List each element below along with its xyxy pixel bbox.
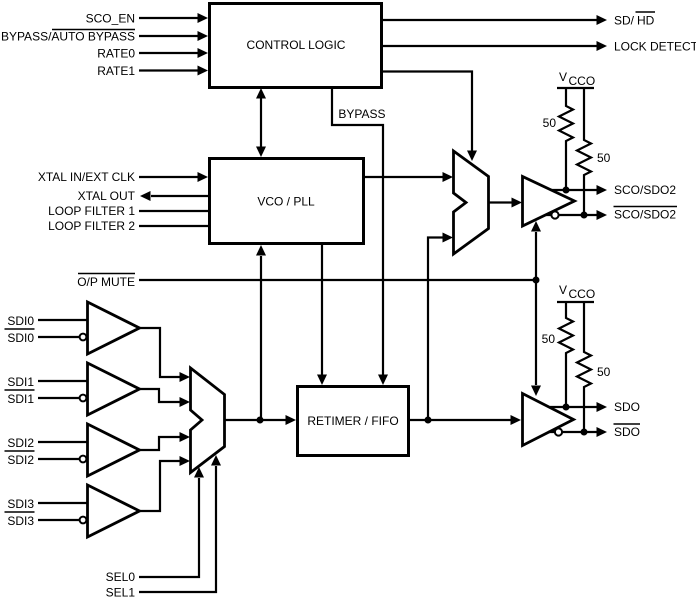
output buffer SCO/SDO2 [523,177,575,227]
control logic block U1 [210,4,382,88]
wire XTAL OUT from VCO (output arrow) [140,191,208,201]
SEL1 pin label [106,586,136,600]
wire RATE0 to control logic [139,48,208,58]
svg-text:SCO/SDO2: SCO/SDO2 [614,208,676,222]
svg-text:RETIMER / FIFO: RETIMER / FIFO [307,414,398,428]
junction SCO/SDO2 complement pullup node [581,212,588,219]
XTAL IN/EXT CLK pin label [38,170,135,184]
wire SDI2 complement input [38,458,79,460]
wire LOOP FILTER 2 to VCO [139,225,208,227]
junction retimer output node [425,417,432,424]
LOCK DETECT output label [614,40,696,54]
wire O/P MUTE [139,279,536,281]
wire retimer output to SDO buffer [410,415,521,425]
LOOP FILTER 1 pin label [48,204,135,218]
svg-text:SDI3: SDI3 [7,514,34,528]
svg-text:SDI1: SDI1 [7,392,34,406]
svg-text:SCO_EN: SCO_EN [86,12,135,26]
BYPASS net label [338,107,385,121]
wire LOCK DETECT output [383,41,607,51]
resistor R3 50 ohm [559,302,573,407]
SDI0 complement pin label (overlined) [5,329,35,345]
wire BYPASS control logic to retimer [332,88,388,385]
SDI0 pin label [7,314,34,328]
SEL0 pin label [106,570,136,584]
wire retimer output to output mux [428,233,453,421]
wire BYPASS/AUTO BYPASS to control logic [139,31,208,41]
svg-text:SEL1: SEL1 [106,586,136,600]
RATE0 pin label [97,47,135,61]
SDI1 complement pin label (overlined) [5,390,35,406]
svg-text:SCO/SDO2: SCO/SDO2 [614,183,676,197]
svg-text:XTAL IN/EXT CLK: XTAL IN/EXT CLK [38,170,135,184]
svg-text:O/P MUTE: O/P MUTE [77,275,135,289]
svg-text:SDI2: SDI2 [7,436,34,450]
wire SDI3 buffer to input mux [140,456,191,511]
svg-text:VCO / PLL: VCO / PLL [257,195,315,209]
wire SCO/SDO2 true output [551,185,607,195]
SDI3 complement pin label (overlined) [5,512,35,528]
svg-text:50: 50 [597,365,611,379]
junction SCO/SDO2 pullup node [563,187,570,194]
svg-text:SDI1: SDI1 [7,375,34,389]
VCCO supply label (top) [559,70,595,88]
VCCO supply rail (bottom) [557,301,594,303]
wire input mux to retimer [225,415,297,425]
wire O/P MUTE to SCO buffer [531,221,541,280]
wire O/P MUTE to SDO buffer [531,280,541,396]
wire SDI1 buffer to input mux [140,389,191,407]
LOOP FILTER 2 pin label [48,219,135,233]
XTAL OUT pin label [78,189,136,203]
SDI2 complement pin label (overlined) [5,451,35,467]
inverter bubble SDI1 [80,395,87,402]
wire SDI0 input [38,319,87,321]
wire SDI1 input [38,380,87,382]
svg-text:RATE1: RATE1 [97,64,135,78]
inverter bubble SDO complement [555,428,562,435]
wire SDI3 complement input [38,519,79,521]
wire SDI1 complement input [38,397,79,399]
SD/HD output label (HD overlined) [614,12,655,28]
SCO_EN pin label [86,12,135,26]
svg-text:SDO: SDO [614,425,640,439]
RATE1 pin label [97,64,135,78]
SDI1 pin label [7,375,34,389]
junction O/P MUTE node [533,277,540,284]
VCO / PLL block [210,159,364,244]
input buffer SDI3 [88,485,140,537]
svg-text:V: V [559,283,567,297]
svg-text:SEL0: SEL0 [106,570,136,584]
wire output mux to SCO buffer [489,198,523,208]
inverter bubble SCO/SDO2 complement [551,211,558,218]
svg-text:SDI3: SDI3 [7,497,34,511]
svg-text:LOCK DETECT: LOCK DETECT [614,40,696,54]
resistor R4 50 ohm [577,302,591,432]
svg-text:SDO: SDO [614,400,640,414]
wire SDI2 input [38,441,87,443]
wire XTAL IN/EXT CLK to VCO [139,172,208,182]
inverter bubble SDI0 [80,334,87,341]
input select mux [191,368,225,473]
svg-text:CONTROL LOGIC: CONTROL LOGIC [247,38,346,52]
svg-text:SD/: SD/ [614,14,635,28]
SDO output label [614,400,640,414]
output buffer SDO [523,394,574,446]
svg-text:RATE0: RATE0 [97,47,135,61]
retimer / FIFO block [298,387,409,456]
svg-text:XTAL OUT: XTAL OUT [78,189,136,203]
SCO/SDO2 output label [614,183,676,197]
svg-text:SDI2: SDI2 [7,453,34,467]
svg-text:HD: HD [637,14,655,28]
R2 value 50 [597,151,611,165]
wire SDI0 complement input [38,336,79,338]
wire SEL0 to input mux [139,467,204,577]
wire VCO clock to retimer [317,245,327,385]
wire control logic to VCO/PLL bidirectional [256,88,266,157]
wire SDI3 input [38,502,87,504]
wire SDO complement output [548,427,607,437]
wire VCO output to output mux [365,172,453,182]
input buffer SDI1 [88,363,140,415]
input buffer SDI2 [88,424,140,476]
SDI2 pin label [7,436,34,450]
svg-text:50: 50 [543,116,557,130]
wire SCO/SDO2 complement output [546,210,607,220]
BYPASS/AUTO BYPASS pin label (AUTO BYPASS overlined) [1,30,135,44]
R4 value 50 [597,365,611,379]
SCO/SDO2 complement output label (overlined) [614,207,678,222]
junction retimer input node [257,417,264,424]
inverter bubble SDI2 [80,456,87,463]
wire LOOP FILTER 1 to VCO [139,210,208,212]
svg-text:LOOP FILTER 1: LOOP FILTER 1 [48,204,135,218]
wire SDI2 buffer to input mux [140,432,191,450]
wire retimer input node to VCO/PLL [256,245,266,420]
wire SDI0 buffer to input mux [140,328,191,382]
svg-text:SDI0: SDI0 [7,331,34,345]
svg-text:CCO: CCO [569,74,596,88]
resistor R1 50 ohm [559,88,573,190]
junction SDO pullup node [563,404,570,411]
resistor R2 50 ohm [577,88,591,215]
svg-text:BYPASS/AUTO BYPASS: BYPASS/AUTO BYPASS [1,30,135,44]
svg-text:50: 50 [542,332,556,346]
wire control logic to output mux select [383,72,477,162]
wire SCO_EN to control logic [139,13,208,23]
VCCO supply label (bottom) [559,283,595,301]
input buffer SDI0 [88,302,140,354]
VCCO supply rail (top) [557,87,594,89]
inverter bubble SDI3 [80,517,87,524]
wire SDO true output [550,402,607,412]
svg-text:SDI0: SDI0 [7,314,34,328]
wire SD/HD output [383,15,607,25]
SDO complement output label (overlined) [614,424,641,439]
svg-text:LOOP FILTER 2: LOOP FILTER 2 [48,219,135,233]
svg-text:CCO: CCO [569,287,596,301]
output mux [454,151,489,254]
R1 value 50 [543,116,557,130]
SDI3 pin label [7,497,34,511]
junction SDO complement pullup node [581,429,588,436]
wire RATE1 to control logic [139,66,208,76]
svg-text:50: 50 [597,151,611,165]
wire SEL1 to input mux [139,455,221,592]
R3 value 50 [542,332,556,346]
svg-text:V: V [559,70,567,84]
svg-text:BYPASS: BYPASS [338,107,385,121]
O/P MUTE pin label (overlined) [77,274,135,290]
